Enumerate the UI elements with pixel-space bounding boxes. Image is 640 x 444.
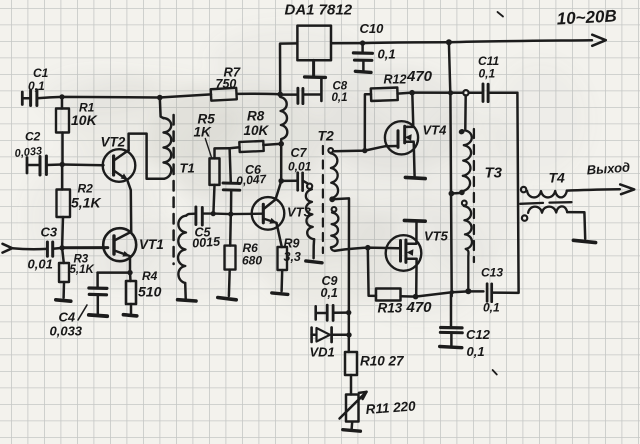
transformer T3 lower winding (464, 206, 472, 290)
svg-text:T3: T3 (485, 165, 503, 182)
transformer T1 core (172, 115, 175, 264)
node J (VT3 collector/C7 junction) (278, 178, 284, 184)
svg-text:0,01: 0,01 (28, 257, 53, 272)
svg-text:0015: 0015 (192, 234, 222, 250)
wire power rail to arrow (449, 40, 592, 42)
capacitor C7 (281, 173, 307, 191)
svg-text:750: 750 (216, 77, 237, 91)
capacitor C1 (22, 90, 37, 106)
diode VD1 (312, 328, 349, 343)
wire to VT1 base (62, 246, 108, 249)
transformer T2 core (322, 146, 324, 253)
node T (T3 limb top) (448, 90, 453, 95)
wire right vertical (C11 to C13/T4) (517, 93, 518, 293)
svg-text:C1: C1 (33, 66, 49, 80)
wire R7 to node H (237, 92, 281, 95)
svg-text:VT2: VT2 (101, 135, 126, 150)
resistor R13 (368, 248, 416, 301)
ground (C10) (355, 71, 371, 72)
svg-text:DA1 7812: DA1 7812 (285, 2, 353, 19)
resistor R12 (365, 88, 412, 151)
wire node L down (449, 42, 450, 93)
pointer line C4 (78, 305, 87, 320)
capacitor C13 (487, 284, 518, 302)
winding terminal ring (T3 top on rail) (463, 90, 468, 95)
ground (R4) (123, 315, 136, 316)
ground (VT5 top) (404, 219, 425, 223)
wire T3 upper winding lead (464, 95, 467, 128)
stray mark bottom (493, 370, 497, 375)
capacitor C2 (27, 156, 62, 175)
node W (limb/bottom wire) (450, 290, 454, 294)
wire T4 output (567, 189, 620, 190)
wire DA1 input (280, 43, 297, 94)
transformer T4 top winding (527, 191, 567, 198)
transistor VT5 (MOSFET) (386, 221, 422, 296)
transformer T4 bottom winding (528, 206, 567, 213)
wire tank row (T1 sec to VT3 base) (186, 214, 263, 216)
svg-text:0,1: 0,1 (378, 47, 396, 62)
svg-text:VT3: VT3 (287, 205, 312, 220)
wire VT2 emitter to VT1 collector (127, 180, 131, 232)
capacitor C11 (483, 84, 517, 102)
transformer T4 core (520, 202, 571, 204)
svg-text:T2: T2 (318, 128, 335, 144)
node K (C10 junction) (360, 40, 365, 45)
ground (C4) (89, 315, 107, 316)
svg-text:0,01: 0,01 (288, 160, 312, 174)
ground (R3) (56, 300, 71, 301)
svg-text:R2: R2 (78, 182, 94, 196)
capacitor C6 (223, 148, 240, 214)
wire winding end to limb (451, 192, 462, 195)
node L (power branch junction) (446, 39, 452, 45)
transformer T3 core (473, 129, 475, 262)
transformer T3 left limb (450, 93, 451, 296)
svg-text:470: 470 (406, 68, 433, 85)
svg-text:C2: C2 (25, 130, 41, 144)
ground (C12) (440, 347, 462, 348)
winding terminal ring (T2 left top) (307, 184, 312, 189)
svg-text:C10: C10 (360, 21, 385, 36)
resistor R4 (126, 273, 136, 314)
ground (R9) (272, 293, 288, 295)
input arrow (3, 244, 13, 253)
wire top rail left (37, 94, 211, 98)
winding start blob (T3 upper) (458, 128, 466, 135)
inductor L1 (280, 97, 287, 144)
svg-text:10K: 10K (244, 123, 270, 138)
transistor VT1 (103, 228, 136, 272)
svg-text:5,1K: 5,1K (71, 195, 101, 211)
svg-text:0,033: 0,033 (50, 324, 83, 339)
svg-text:R10 27: R10 27 (360, 354, 405, 369)
winding terminal ring (T4 bottom) (522, 215, 527, 220)
svg-text:5,1K: 5,1K (70, 264, 95, 276)
ground (R11) (343, 430, 361, 432)
wire to VT2 base (62, 163, 103, 166)
resistor R2 (57, 165, 71, 248)
wire T2 to VT5 gate (335, 248, 399, 251)
svg-text:Выход: Выход (586, 160, 630, 178)
resistor R3 (59, 248, 69, 298)
ground (T4) (573, 240, 595, 242)
ground (R6) (218, 298, 236, 300)
resistor R6 (225, 214, 236, 296)
svg-text:C3: C3 (41, 225, 58, 240)
winding end blob (T3 upper) (459, 190, 465, 196)
svg-text:C8: C8 (333, 81, 348, 93)
capacitor C9 (316, 305, 349, 320)
node H (rail/DA1/L1/C8 junction) (277, 92, 283, 98)
svg-text:C13: C13 (481, 266, 503, 280)
node A (C1/R1 junction) (59, 94, 64, 99)
winding terminal ring (T4 top) (521, 187, 526, 192)
pointer line R5 (205, 139, 211, 157)
ground (T1 secondary) (178, 300, 196, 301)
svg-text:0,1: 0,1 (467, 344, 485, 359)
transformer T2 left winding (306, 189, 314, 258)
transformer T2 right upper winding (331, 153, 338, 198)
node O (T2 center tap) (329, 196, 335, 202)
capacitor C10 (353, 43, 372, 71)
transformer T1 secondary winding (178, 216, 186, 299)
node P (VT5 gate/R13 junction) (365, 245, 371, 251)
node I (L1/R8/VT3 junction) (278, 141, 284, 147)
wire input (12, 248, 46, 249)
svg-text:0,1: 0,1 (479, 67, 496, 81)
node G (C6/R6 junction) (228, 212, 233, 217)
svg-text:680: 680 (242, 254, 262, 268)
node S (VD1/bias junction) (346, 332, 351, 337)
node Q (R13/VT5 source junction) (413, 294, 419, 300)
transformer T3 upper winding (462, 130, 472, 191)
node B (T1 top junction) (157, 95, 163, 101)
winding terminal ring (T3 lower) (462, 201, 467, 206)
wire rail R12 to C11 (412, 91, 482, 94)
wire T2 to VT4 gate (333, 146, 397, 151)
capacitor C3 (47, 242, 62, 256)
node F (R5 bottom junction) (211, 211, 216, 216)
svg-text:3,3: 3,3 (284, 250, 301, 264)
stray mark top (498, 12, 504, 17)
svg-text:VD1: VD1 (310, 345, 335, 360)
resistor R7 (211, 88, 237, 101)
svg-text:510: 510 (138, 284, 162, 300)
node N (R12/gate junction) (362, 148, 367, 153)
resistor R10 (345, 352, 357, 395)
svg-text:VT5: VT5 (424, 229, 449, 244)
svg-text:R13: R13 (378, 301, 403, 316)
transistor VT3 (252, 181, 285, 229)
node U (T3 limb mid) (449, 191, 455, 197)
svg-text:R8: R8 (247, 109, 265, 124)
resistor R8 (230, 141, 282, 152)
svg-text:C4: C4 (59, 310, 76, 325)
ground (T2 left) (306, 261, 322, 263)
node E (VT1 emitter/C4/R4 junction) (127, 270, 132, 275)
capacitor C12 (440, 292, 462, 346)
node M (R12/VT4 drain junction) (409, 90, 415, 96)
resistor R1 (56, 97, 69, 165)
voltage regulator DA1 (297, 26, 331, 78)
svg-text:0,1: 0,1 (321, 286, 338, 300)
capacitor C4 (89, 273, 107, 314)
DA1 output wire (331, 42, 449, 43)
resistor R9 (277, 223, 288, 291)
svg-text:0,047: 0,047 (236, 172, 268, 188)
svg-text:R4: R4 (142, 269, 158, 283)
transistor VT4 (MOSFET) (385, 93, 418, 177)
svg-text:0,1: 0,1 (483, 301, 500, 315)
capacitor C8 (281, 78, 321, 104)
svg-text:VT4: VT4 (423, 123, 448, 138)
svg-text:10K: 10K (71, 112, 98, 128)
svg-text:C12: C12 (466, 327, 491, 342)
node D (C3/R2/R3/VT1-base junction) (59, 245, 64, 250)
svg-text:0,1: 0,1 (28, 79, 45, 93)
svg-text:10~20В: 10~20В (556, 6, 617, 28)
svg-text:T1: T1 (180, 161, 195, 176)
svg-text:R9: R9 (284, 237, 300, 251)
node R (C9/bias junction) (346, 310, 351, 315)
node C (C2/R1/R2/VT2-base junction) (60, 162, 65, 167)
winding terminal ring (T2 right lower) (332, 207, 337, 212)
wire bottom rail to C13 (416, 291, 484, 296)
transistor VT2 (103, 149, 136, 182)
transformer T1 primary winding (160, 98, 172, 179)
svg-text:470: 470 (406, 299, 433, 316)
svg-text:C7: C7 (291, 146, 308, 160)
svg-text:0,1: 0,1 (332, 92, 348, 104)
node V (T3 winding bottom junction) (465, 288, 471, 294)
wire VT2 collector to T1 (129, 134, 165, 179)
output arrowhead (620, 184, 634, 194)
capacitor C5 (196, 207, 202, 225)
winding terminal ring (T2 right top) (328, 148, 333, 153)
wire node I to node J (280, 144, 283, 181)
transformer T2 right lower winding (331, 213, 339, 251)
resistor R5 (210, 148, 230, 213)
wire T4 bottom to ground (567, 212, 585, 239)
svg-text:T4: T4 (549, 170, 566, 186)
resistor R11 (variable) (340, 392, 367, 430)
svg-text:VT1: VT1 (139, 237, 164, 252)
svg-text:R12: R12 (384, 73, 407, 87)
wire emitter to C4 (98, 271, 130, 274)
svg-text:1K: 1K (194, 125, 213, 140)
ground (VT4 source) (405, 177, 425, 178)
wire tap to bias rail (332, 198, 349, 352)
power arrowhead 10-20V (592, 35, 606, 46)
